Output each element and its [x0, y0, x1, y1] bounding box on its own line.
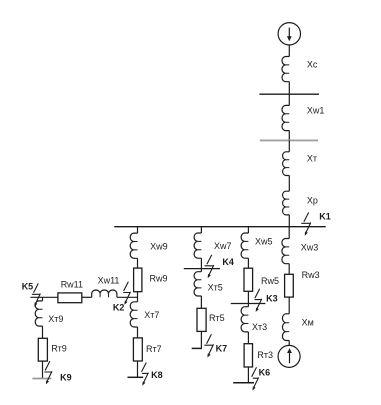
- svg-text:K1: K1: [319, 212, 331, 222]
- wire: [247, 332, 249, 344]
- wire: [42, 297, 44, 301]
- bus line at K4: [184, 268, 220, 270]
- reactor Xp: [283, 191, 290, 215]
- resistor Rw5: [244, 268, 253, 291]
- svg-text:Xc: Xc: [307, 59, 318, 69]
- svg-text:Xт: Xт: [307, 153, 317, 163]
- wire: [137, 258, 139, 268]
- svg-text:K3: K3: [266, 294, 278, 304]
- svg-text:Rт7: Rт7: [146, 344, 162, 354]
- wire: [247, 291, 249, 306]
- wire / node K2: [137, 292, 139, 302]
- svg-text:Xт3: Xт3: [252, 322, 267, 332]
- reactor Xw7: [194, 233, 201, 258]
- motor M (circle with up arrow): [278, 345, 300, 367]
- svg-text:Xт5: Xт5: [208, 282, 223, 292]
- svg-text:Rт9: Rт9: [51, 344, 67, 354]
- fault K1: [301, 212, 311, 235]
- reactor Xw3: [282, 239, 289, 264]
- svg-text:Rw11: Rw11: [61, 280, 83, 290]
- svg-text:K9: K9: [60, 373, 72, 383]
- svg-text:Rт5: Rт5: [209, 313, 225, 323]
- svg-text:Xw3: Xw3: [301, 242, 319, 252]
- fault K5: [32, 283, 41, 306]
- wire: [288, 341, 290, 346]
- source system G (circle with down arrow): [278, 23, 300, 45]
- fault K4: [205, 255, 214, 278]
- resistor Rт5: [197, 308, 206, 331]
- wire: [200, 331, 202, 348]
- svg-text:K4: K4: [222, 257, 234, 267]
- wire: [288, 94, 290, 105]
- wire: [117, 296, 138, 298]
- resistor Rт9: [38, 338, 47, 361]
- wire: [82, 296, 92, 298]
- reactor Xт9: [35, 301, 42, 326]
- bus 2 (gray): [260, 139, 318, 141]
- svg-text:K7: K7: [216, 344, 228, 354]
- main bus (node K1 bus): [114, 226, 326, 228]
- svg-text:Xт7: Xт7: [144, 310, 159, 320]
- fault K6: [252, 367, 259, 390]
- wire: [200, 258, 202, 272]
- svg-text:K8: K8: [151, 370, 163, 380]
- svg-text:K2: K2: [113, 303, 125, 313]
- bus line at K3: [231, 303, 266, 305]
- fault K2: [123, 282, 130, 305]
- svg-text:Xw9: Xw9: [150, 242, 168, 252]
- wire: [288, 264, 290, 275]
- reactor Xc: [282, 57, 289, 82]
- resistor Rw11: [58, 293, 82, 303]
- wire: [247, 367, 249, 383]
- wire: [200, 296, 202, 308]
- reactor Xw5: [241, 233, 248, 258]
- reactor Xт7: [130, 302, 137, 327]
- svg-text:Xw7: Xw7: [214, 241, 232, 251]
- resistor Rт3: [244, 344, 252, 367]
- reactor Xм: [282, 314, 289, 341]
- wire: [137, 361, 139, 377]
- wire: [137, 327, 139, 338]
- fault K8: [142, 363, 149, 386]
- fault K3: [255, 289, 262, 312]
- reactor Xw11: [92, 290, 117, 297]
- bus 1: [259, 93, 319, 95]
- svg-text:Rw5: Rw5: [261, 276, 279, 286]
- ground bar K6: [233, 382, 254, 384]
- reactor Xw9: [130, 233, 137, 258]
- wire: [200, 227, 202, 233]
- wire: [288, 297, 290, 314]
- wire: [247, 227, 249, 233]
- reactor Xw1: [282, 105, 289, 130]
- wire: [288, 140, 290, 151]
- svg-text:Rw3: Rw3: [302, 270, 320, 280]
- wire: [288, 82, 290, 95]
- wire: [42, 326, 44, 338]
- wire: [288, 45, 290, 57]
- fault K9: [44, 361, 52, 384]
- svg-text:Rт3: Rт3: [257, 350, 273, 360]
- ground bar K8: [128, 376, 144, 378]
- svg-text:Xw5: Xw5: [255, 237, 273, 247]
- wire: [137, 227, 139, 233]
- svg-text:Xw11: Xw11: [98, 276, 120, 286]
- svg-text:Rw9: Rw9: [150, 273, 168, 283]
- svg-text:K6: K6: [259, 367, 271, 377]
- transformer reactance Xт: [283, 152, 290, 176]
- ground bar K9 (gray): [32, 378, 51, 380]
- wire: [42, 361, 44, 378]
- ground bar K7: [192, 347, 202, 349]
- wire: [288, 176, 290, 192]
- wire: [247, 258, 249, 268]
- wire: [30, 296, 58, 298]
- svg-text:Xт9: Xт9: [48, 314, 63, 324]
- svg-text:Xм: Xм: [302, 318, 314, 328]
- reactor Xт3: [241, 307, 248, 332]
- resistor Rw3: [285, 274, 294, 297]
- wire: [288, 215, 290, 227]
- wire: [288, 131, 290, 141]
- wire: [288, 227, 290, 239]
- svg-text:Xp: Xp: [307, 195, 318, 205]
- resistor Rт7: [133, 338, 142, 361]
- reactor Xт5: [194, 272, 201, 296]
- svg-text:Xw1: Xw1: [307, 105, 325, 115]
- resistor Rw9: [134, 268, 142, 292]
- fault K7: [204, 334, 213, 357]
- svg-text:K5: K5: [22, 281, 34, 291]
